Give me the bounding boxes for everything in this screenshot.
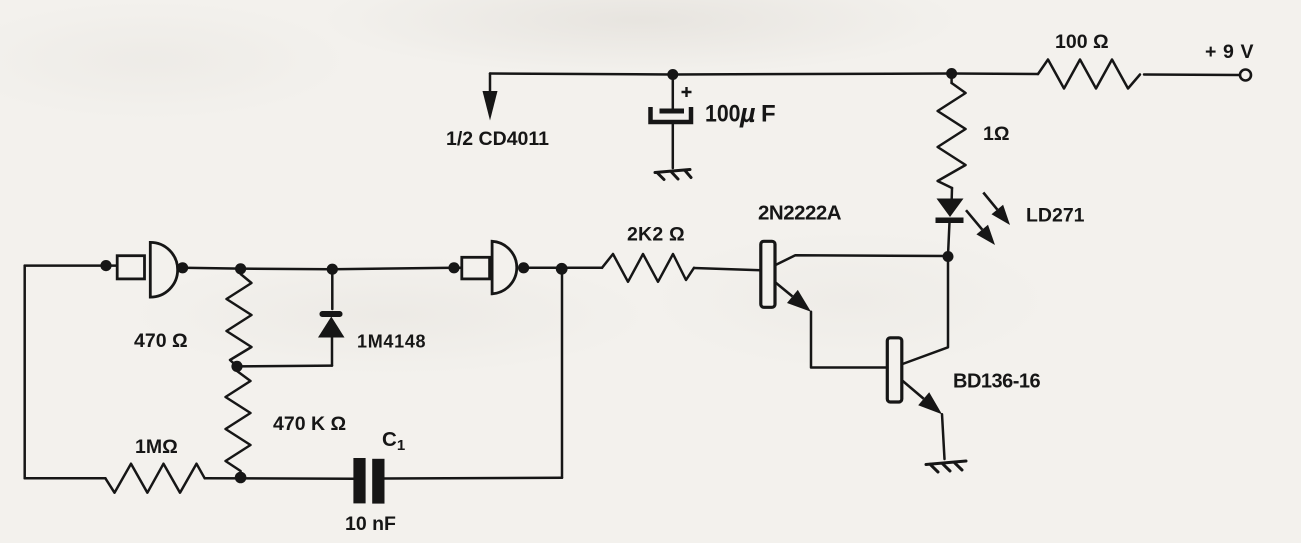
svg-text:LD271: LD271 [1026,205,1085,227]
wire Q2 emitter down [942,414,945,459]
gate U1B input box [462,257,490,279]
wire feedback vertical [561,269,564,478]
svg-text:1M4148: 1M4148 [357,332,426,352]
gate U1A output dot [177,262,188,273]
diode D1 triangle [318,317,345,338]
svg-text:2N2222A: 2N2222A [758,202,842,225]
gate U1A body [150,242,177,297]
capacitor C1 plate left [353,458,365,503]
wire LED bottom lead [948,222,949,251]
svg-text:F: F [761,101,776,128]
wire left vertical [23,266,26,479]
wire gate1 output [183,268,454,269]
resistor R2 1 ohm [938,83,966,188]
svg-text:10 nF: 10 nF [345,513,396,535]
wire bottom right [385,477,563,480]
capacitor C2 cup [651,107,692,122]
resistor R3 2K2 [602,254,694,282]
wire diode top lead [331,269,334,309]
wire gate2 output [524,267,602,270]
resistor R5 470K [226,366,251,476]
ground for Q2 [926,461,966,472]
wire LED top lead [950,188,953,199]
gate U1A input box [117,256,144,279]
wire Q1 collector [776,255,949,265]
wire Q1 emitter to Q2 base [811,312,887,368]
LED light arrow 2 [966,210,982,229]
junction node B (1 ohm top) [946,68,957,79]
junction dot feedback [556,263,568,275]
wire 470 to diode horizontal [237,364,332,367]
LED D2 cathode bar [936,218,964,224]
wire cap bottom [672,125,675,169]
svg-text:BD136-16: BD136-16 [953,371,1041,393]
diode D1 cathode bar [320,311,343,317]
gate U1A input dot [100,260,111,271]
svg-text:1MΩ: 1MΩ [135,436,178,458]
capacitor C2 100uF plate [660,109,685,114]
junction dot 470 top [235,263,246,274]
svg-text:1/2 CD4011: 1/2 CD4011 [446,128,549,150]
svg-text:100 Ω: 100 Ω [1055,31,1109,53]
wire Q1 base [694,268,761,270]
capacitor C2 plus sign [682,87,692,97]
wire gate2 input [454,267,462,270]
svg-text:+ 9 V: + 9 V [1205,41,1254,63]
junction dot bottom [235,472,247,484]
junction dot 470 middle [231,361,242,372]
transistor Q2 emitter arrow [903,381,924,399]
resistor R6 1M [105,464,204,493]
junction node A (cap top) [667,69,678,80]
resistor R4 470 ohm [227,269,252,366]
wire cap top [672,75,675,109]
terminal +9V [1240,70,1251,81]
gate U1B output dot [518,262,529,273]
resistor R1 100 ohm [1038,60,1140,89]
LED D2 triangle [937,199,964,218]
gate U1B input dot [448,262,459,273]
junction dot diode top [327,264,338,275]
wire top rail left [490,74,1038,75]
wire 1ohm lead [950,74,953,84]
wire gate1 input left [25,264,118,267]
arrow CD4011 pointer [483,91,498,121]
svg-text:1Ω: 1Ω [983,123,1009,145]
svg-text:µ: µ [739,98,756,128]
ground for C2 [655,170,691,180]
svg-text:470 Ω: 470 Ω [134,330,188,352]
gate U1B body [492,241,517,293]
svg-text:2K2 Ω: 2K2 Ω [627,224,685,246]
svg-text:100: 100 [705,101,741,128]
transistor Q1 emitter arrow [776,283,793,297]
wire bottom middle [205,477,354,480]
capacitor C1 plate right [372,459,384,504]
svg-text:470 K Ω: 470 K Ω [273,413,346,435]
wire bottom left [25,477,106,480]
wire diode bottom lead [331,338,334,366]
transistor Q2 BD136 base bar [887,338,902,402]
wire CD4011 stub [489,74,492,93]
wire top rail right [1144,73,1240,76]
junction node C (LED cathode) [943,251,954,262]
transistor Q1 2N2222A base bar [761,241,775,307]
LED light arrow 1 [983,193,997,210]
wire Q2 collector [903,257,949,365]
